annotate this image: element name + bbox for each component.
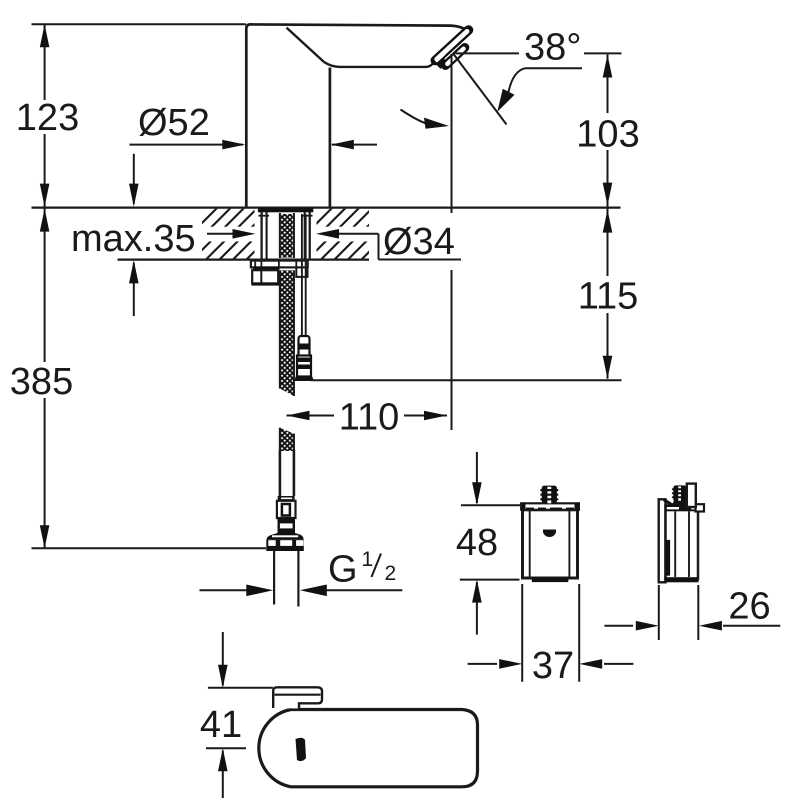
svg-text:G: G: [328, 549, 358, 591]
38 degree slant line: [454, 54, 507, 125]
label D52: [138, 102, 210, 144]
svg-text:2: 2: [385, 562, 397, 585]
grohe logo on head: [296, 738, 307, 761]
cable plug connector: [294, 336, 314, 381]
hose end tube: [280, 450, 294, 496]
label 115: [576, 276, 640, 318]
svg-text:48: 48: [456, 522, 498, 564]
label 110: [339, 397, 400, 439]
dimension 26: [604, 585, 780, 640]
mounting washer below deck: [251, 261, 308, 271]
dimension 37: [468, 584, 634, 682]
label 48: [456, 522, 498, 564]
svg-text:Ø52: Ø52: [138, 102, 210, 144]
connection tailpipe: [274, 551, 298, 607]
svg-text:123: 123: [16, 97, 79, 139]
svg-text:38°: 38°: [524, 27, 581, 69]
label 38deg: [456, 27, 622, 69]
dimension 41: [206, 632, 273, 798]
label G half: [328, 548, 396, 591]
label 385: [8, 361, 76, 403]
grohe logo front: [543, 530, 556, 538]
faucet body outline: [246, 24, 467, 207]
dimension 110: [287, 400, 448, 432]
svg-text:max.35: max.35: [71, 218, 196, 260]
G1/2 coupling nut: [266, 539, 304, 551]
svg-text:Ø34: Ø34: [383, 221, 455, 263]
label D34: [381, 218, 461, 263]
svg-text:110: 110: [339, 397, 400, 439]
dimension G half arrows: [200, 585, 403, 597]
spout tip vertical reference line: [451, 54, 453, 430]
label 41: [200, 704, 242, 746]
svg-text:41: 41: [200, 704, 242, 746]
sensor tab on head: [273, 687, 322, 708]
water stream curved arrow: [401, 110, 450, 129]
check valve fitting: [267, 496, 304, 539]
deck hatched cross-section: [32, 208, 621, 260]
mounting nut: [252, 267, 309, 285]
dimension max35: [129, 154, 139, 316]
label max35: [71, 218, 196, 260]
svg-text:103: 103: [576, 114, 639, 156]
svg-text:115: 115: [578, 276, 639, 318]
label 123: [16, 97, 79, 139]
label 26: [728, 586, 770, 628]
svg-text:26: 26: [728, 586, 770, 628]
dimension 123/385 vertical line: [32, 24, 267, 548]
control box side view: [659, 499, 704, 582]
svg-text:385: 385: [10, 361, 73, 403]
label 103: [576, 113, 640, 156]
mounting shank through deck: [258, 208, 313, 260]
box front threaded stub: [540, 486, 558, 504]
38 degree leader arc arrow: [497, 68, 582, 112]
control box front view: [521, 503, 580, 582]
flexible hose upper segment: [280, 270, 294, 396]
spout aerator tip: [431, 30, 469, 69]
dimension D34 leader: [207, 229, 461, 260]
spout head front view capsule: [259, 710, 478, 787]
box side threaded stub: [672, 484, 696, 507]
dimension 103/115 vertical line: [311, 55, 622, 381]
svg-text:37: 37: [532, 645, 574, 687]
dimension D52: [130, 140, 378, 150]
svg-text:1: 1: [362, 548, 374, 571]
flexible hose lower segment: [280, 428, 294, 451]
sensor cable: [302, 214, 306, 337]
label 37: [532, 645, 574, 687]
dimension 48: [460, 452, 522, 635]
